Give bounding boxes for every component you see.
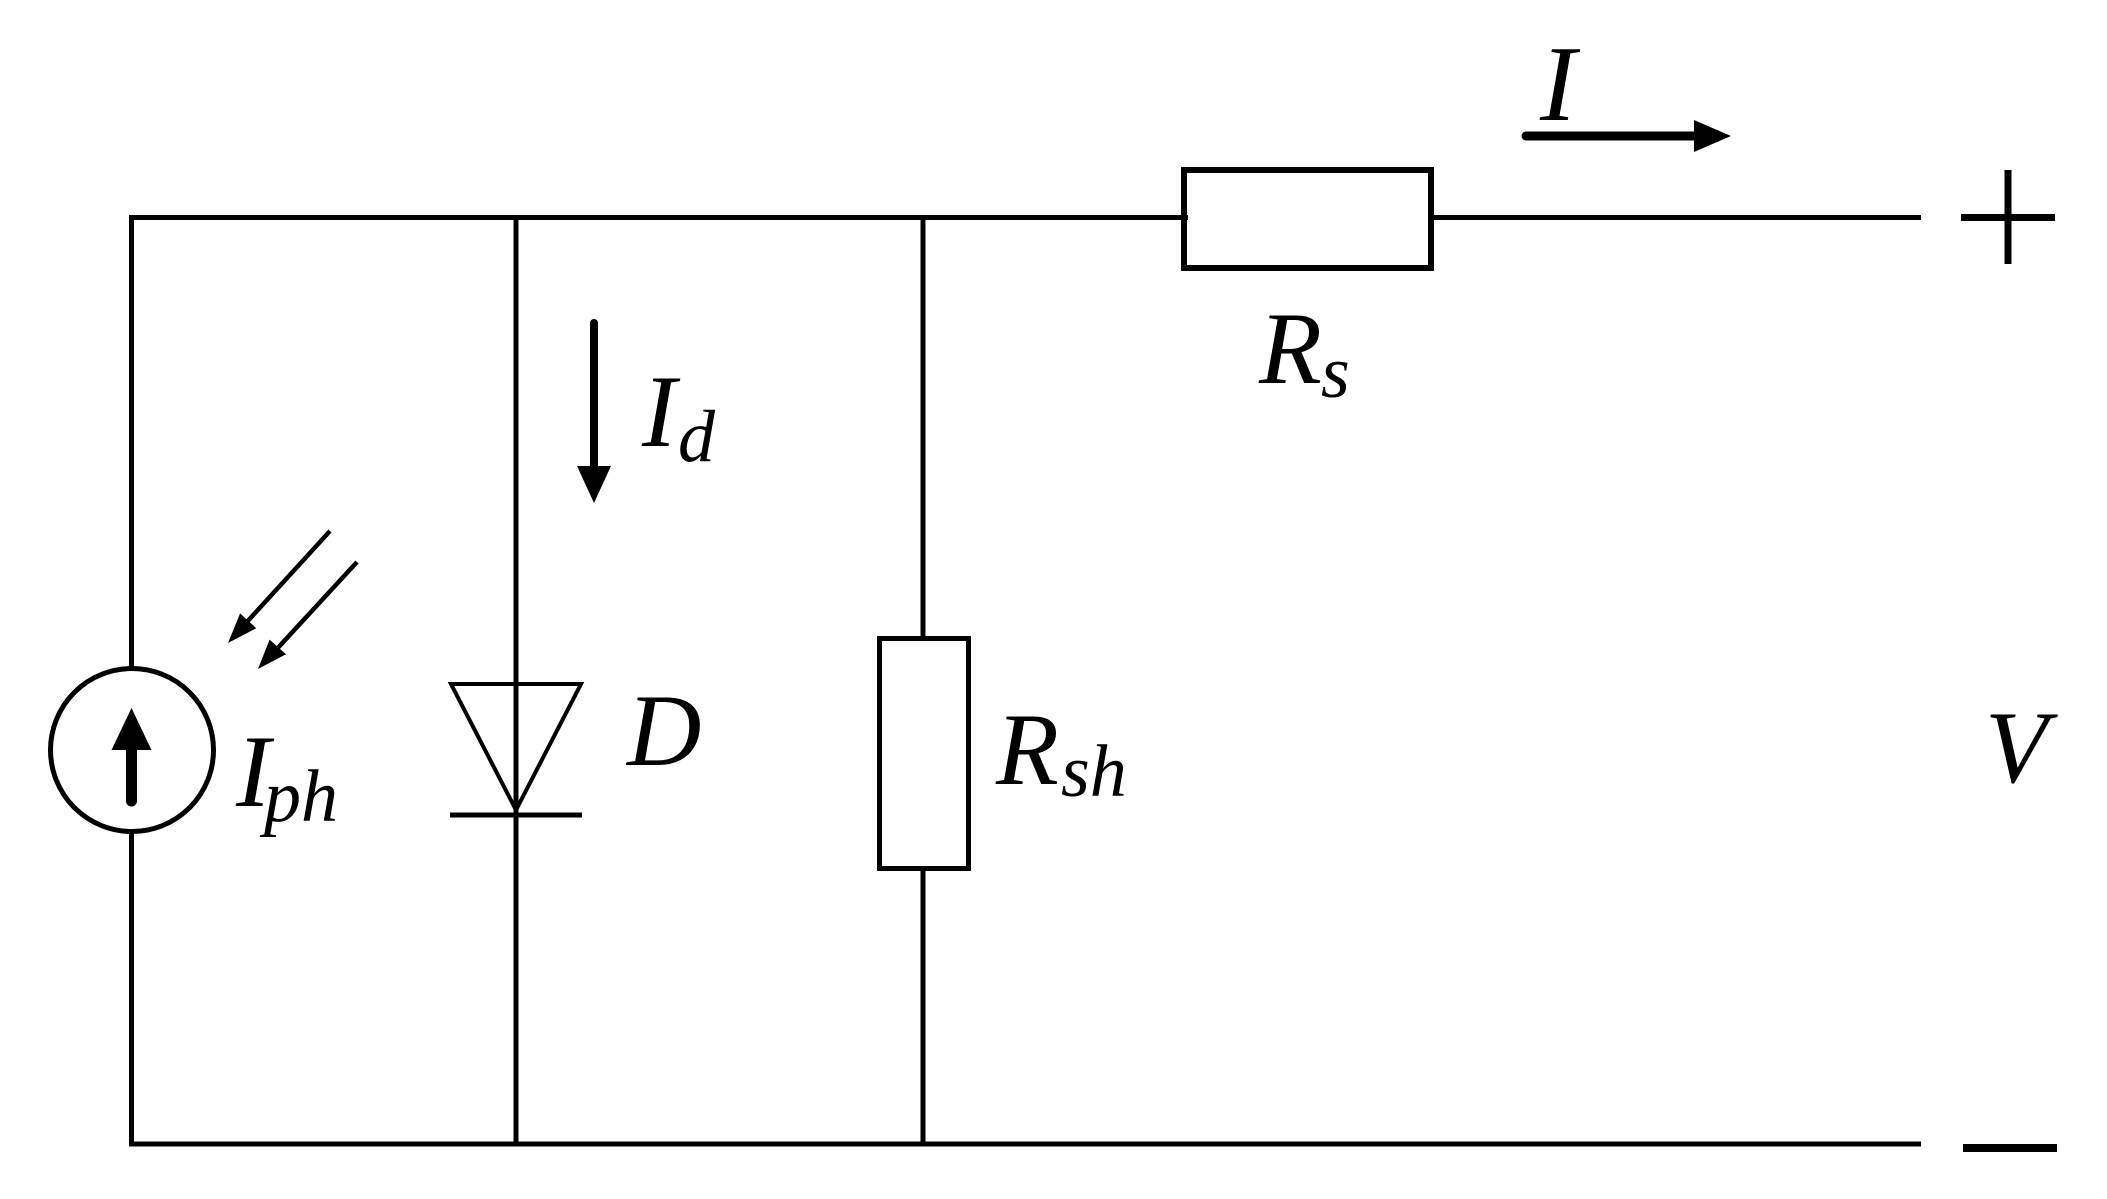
diode current Id arrow (pointing down) bbox=[577, 323, 611, 503]
label Id bbox=[641, 355, 716, 478]
svg-text:I: I bbox=[1539, 25, 1581, 144]
svg-text:sh: sh bbox=[1061, 731, 1127, 813]
svg-text:s: s bbox=[1321, 332, 1350, 414]
svg-text:D: D bbox=[625, 674, 701, 788]
resistor Rsh body (vertical box) bbox=[880, 639, 969, 869]
svg-text:R: R bbox=[995, 693, 1059, 807]
wire left branch lower (current source to bottom bus) bbox=[129, 833, 134, 1147]
light ray arrow 1 (upper) bbox=[228, 531, 330, 643]
svg-text:V: V bbox=[1985, 691, 2058, 805]
wire top bus left segment bbox=[129, 215, 1188, 220]
diode D cathode bar bbox=[450, 813, 582, 818]
svg-text:ph: ph bbox=[259, 756, 338, 838]
wire diode branch (vertical through diode) bbox=[514, 215, 519, 1147]
current source arrow (inside circle, pointing up) bbox=[112, 708, 152, 801]
svg-text:R: R bbox=[1258, 292, 1322, 406]
wire left branch upper (top bus to current source) bbox=[129, 215, 134, 667]
negative terminal - sign bbox=[1963, 1144, 2057, 1152]
wire bottom bus bbox=[129, 1142, 1921, 1147]
current source Iph circle bbox=[51, 669, 214, 832]
output current I arrow (pointing right) bbox=[1526, 120, 1731, 152]
resistor Rs body (horizontal box in top bus) bbox=[1184, 170, 1431, 268]
positive terminal + sign bbox=[1961, 170, 2055, 264]
svg-text:d: d bbox=[678, 396, 716, 478]
label Iph bbox=[235, 715, 338, 838]
label Rsh bbox=[995, 693, 1127, 813]
diode D triangle bbox=[451, 684, 581, 810]
wire shunt branch upper (top bus to Rsh) bbox=[921, 215, 926, 638]
svg-text:I: I bbox=[641, 355, 681, 469]
wire shunt branch lower (Rsh to bottom bus) bbox=[921, 869, 926, 1147]
label Rs bbox=[1258, 292, 1350, 414]
wire top bus right segment (Rs to + terminal) bbox=[1428, 215, 1921, 220]
light ray arrow 2 (lower) bbox=[258, 562, 357, 669]
